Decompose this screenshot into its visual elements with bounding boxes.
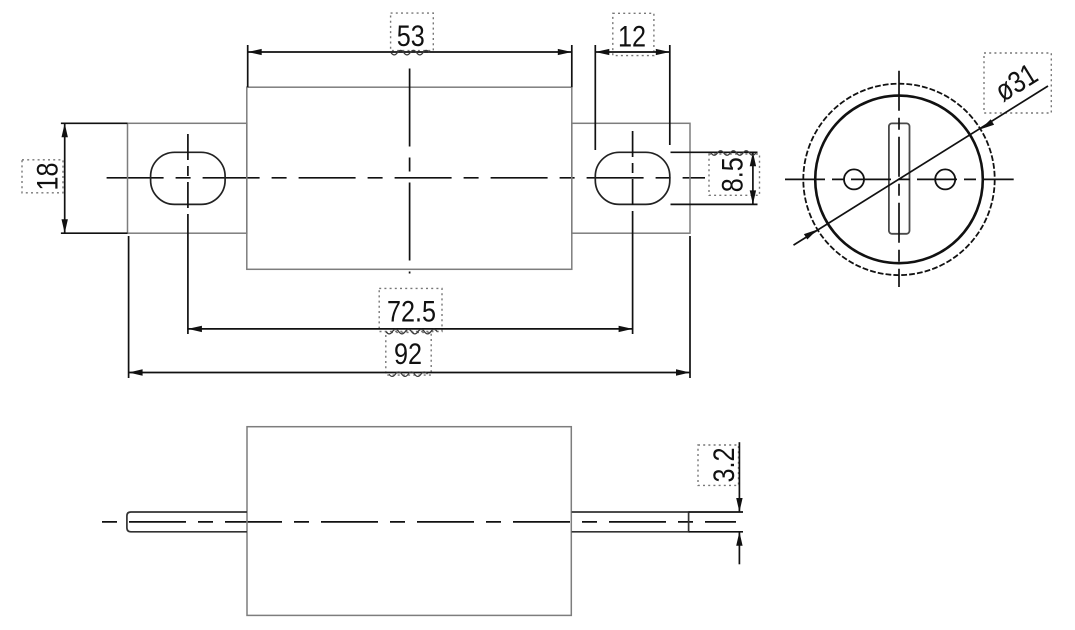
end view horizontal centerline [785,178,1014,180]
svg-text:92: 92 [394,337,422,371]
dim diameter 31 arrows [804,230,818,240]
right slot hole [595,152,670,204]
svg-text:3.2: 3.2 [707,447,741,482]
squiggle under 8.5 extension line [711,151,756,156]
bottom view left lead [127,512,247,532]
dim 53 line [248,51,572,53]
svg-text:72.5: 72.5 [387,294,436,328]
left hole vertical centerline [187,134,189,216]
end view vertical centerline [898,71,900,287]
dim 18 arrows [62,123,68,137]
dim 8.5 extension lines [671,151,758,153]
svg-text:53: 53 [397,19,425,53]
dim 92 arrows [129,369,143,375]
dim 72.5 line [188,328,633,330]
dim diameter 31 leader line [794,86,1049,245]
blade slot end view [889,123,910,233]
left tab front view [128,123,247,233]
bottom view right lead [572,512,689,532]
svg-text:8.5: 8.5 [715,157,749,192]
centerline top view [107,177,705,179]
dim 72.5 arrows [188,326,202,332]
small hole left [844,169,864,189]
left hole centerline extension to 72.5 dim [187,216,189,334]
dim 92 extension lines [128,236,130,378]
label box 53 [391,13,434,51]
end view body circle [815,96,983,264]
label box 8.5 [709,154,760,195]
bottom view centerline [102,521,736,523]
left slot hole [151,152,226,204]
dim 12 arrows [595,49,609,55]
squiggle under 92 label [389,372,427,377]
dim 92 line [129,372,690,374]
body vertical centerline [409,69,411,274]
squiggle under 53 label [391,50,429,55]
label box 92 [386,332,431,375]
small hole right [935,169,955,189]
bottom view body [247,427,571,616]
dim 3.2 line upper [738,442,740,512]
right hole vertical centerline [632,131,634,216]
dim 53 arrows [248,49,262,55]
label box 18 [22,160,63,193]
label box 12 [613,13,654,55]
dim 8.5 arrows [750,152,756,166]
dim 12 extension lines [594,45,596,150]
end view outer dashed circle [803,84,994,275]
right tab front view [572,123,690,233]
label box 72.5 [379,288,442,331]
label box diameter 31 (rotated) [984,53,1051,113]
squiggle under 72.5 label [386,329,437,334]
label box 3.2 [698,445,739,485]
svg-text:12: 12 [618,19,646,53]
dim 12 line [595,51,670,53]
right hole centerline extension to 72.5 dim [632,216,634,334]
dim 53 extension lines [247,45,249,87]
dim 18 extension lines [61,122,128,124]
dim 3.2 extension lines [689,511,743,513]
body front view [247,87,572,269]
dim 3.2 line lower [738,532,740,565]
dim 18 line [64,123,66,233]
svg-text:18: 18 [30,162,64,190]
dim 3.2 arrows [736,498,742,512]
dim 8.5 line [752,152,754,204]
